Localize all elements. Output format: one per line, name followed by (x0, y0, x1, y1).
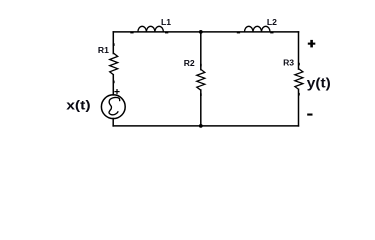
svg-text:y(t): y(t) (307, 76, 331, 91)
terminal tick L1 left (130, 32, 133, 33)
terminal tick R1 bottom (113, 81, 115, 84)
wire left vertical lower (R1 to source) (112, 75, 114, 95)
output minus sign (307, 114, 312, 116)
wire right vertical lower (R3 to corner) (298, 89, 300, 126)
node junction dot bottom (199, 124, 203, 128)
source U1 circle (101, 95, 125, 119)
terminal tick R1 top (113, 43, 115, 46)
terminal tick L2 left (237, 32, 240, 33)
resistor R2 (197, 69, 205, 90)
source sine squiggle (109, 97, 120, 114)
resistor R1 (110, 53, 118, 75)
terminal tick R2 top (200, 64, 202, 67)
terminal tick R2 bottom (200, 93, 202, 96)
node junction dot top (199, 30, 203, 34)
source plus mark (114, 89, 119, 94)
terminal tick R3 top (298, 63, 300, 66)
terminal tick L1 right (165, 32, 168, 33)
svg-text:x(t): x(t) (66, 99, 91, 113)
wire middle vertical lower (R2 to node) (200, 90, 202, 126)
resistor R3 (295, 69, 303, 90)
wire left vertical upper (corner to R1) (112, 32, 114, 54)
wire right vertical upper (corner to R3) (298, 32, 300, 69)
svg-text:R1: R1 (98, 45, 109, 55)
svg-text:L1: L1 (161, 17, 171, 27)
wire middle vertical upper (node to R2) (200, 32, 202, 70)
wire source bottom stub (112, 119, 114, 126)
inductor L2 (245, 26, 271, 32)
wire bottom horizontal (113, 125, 298, 127)
svg-text:R2: R2 (184, 58, 195, 68)
terminal tick R3 bottom (298, 93, 300, 96)
output plus sign (308, 40, 316, 48)
inductor L1 (138, 26, 164, 32)
terminal tick L2 right (270, 32, 273, 33)
svg-text:R3: R3 (283, 57, 294, 67)
wire top horizontal (113, 31, 298, 33)
svg-text:L2: L2 (267, 17, 277, 27)
